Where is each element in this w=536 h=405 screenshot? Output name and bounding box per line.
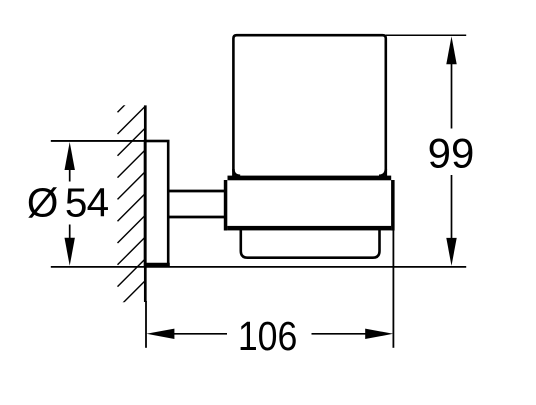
- dimension dia 54: up arrow: [65, 142, 75, 170]
- glass bottom-right corner: [379, 169, 386, 176]
- mounting plate bottom edge (bold): [144, 263, 170, 267]
- dimension 99: up arrow: [446, 36, 456, 64]
- dimension 106: right arrow: [365, 329, 393, 339]
- shared bottom extension line: [51, 266, 466, 268]
- extension line top of plate (dia 54): [51, 140, 147, 142]
- svg-text:Ø 54: Ø 54: [27, 180, 109, 226]
- arm bottom line: [169, 216, 225, 219]
- dimension 99: down arrow: [446, 238, 456, 266]
- arm top line: [169, 190, 225, 193]
- extension line right of 106: [392, 231, 394, 348]
- svg-text:106: 106: [238, 314, 298, 360]
- extension line left of 106: [145, 301, 147, 348]
- dimension dia 54: down arrow: [65, 238, 75, 266]
- wall line: [144, 105, 147, 302]
- dim line left segment: [173, 333, 227, 335]
- dim line upper segment: [451, 63, 453, 128]
- dim line upper segment: [69, 169, 71, 182]
- mounting plate: [145, 141, 168, 265]
- holder bottom rim (bold): [227, 226, 391, 231]
- holder top rim (bold): [228, 176, 392, 181]
- dimension 106: left arrow: [146, 329, 174, 339]
- dim line lower segment: [451, 175, 453, 239]
- holder left edge (bold): [224, 180, 228, 231]
- dim line lower segment: [69, 225, 71, 240]
- glass body: [233, 35, 385, 176]
- wall hatching: [118, 84, 146, 303]
- glass bottom-left corner: [233, 169, 240, 176]
- glass bottom below holder: [241, 230, 380, 258]
- dim line right segment: [312, 333, 367, 335]
- extension line top of glass (99): [386, 34, 467, 36]
- svg-text:99: 99: [428, 130, 475, 177]
- holder right edge (bold): [391, 180, 395, 231]
